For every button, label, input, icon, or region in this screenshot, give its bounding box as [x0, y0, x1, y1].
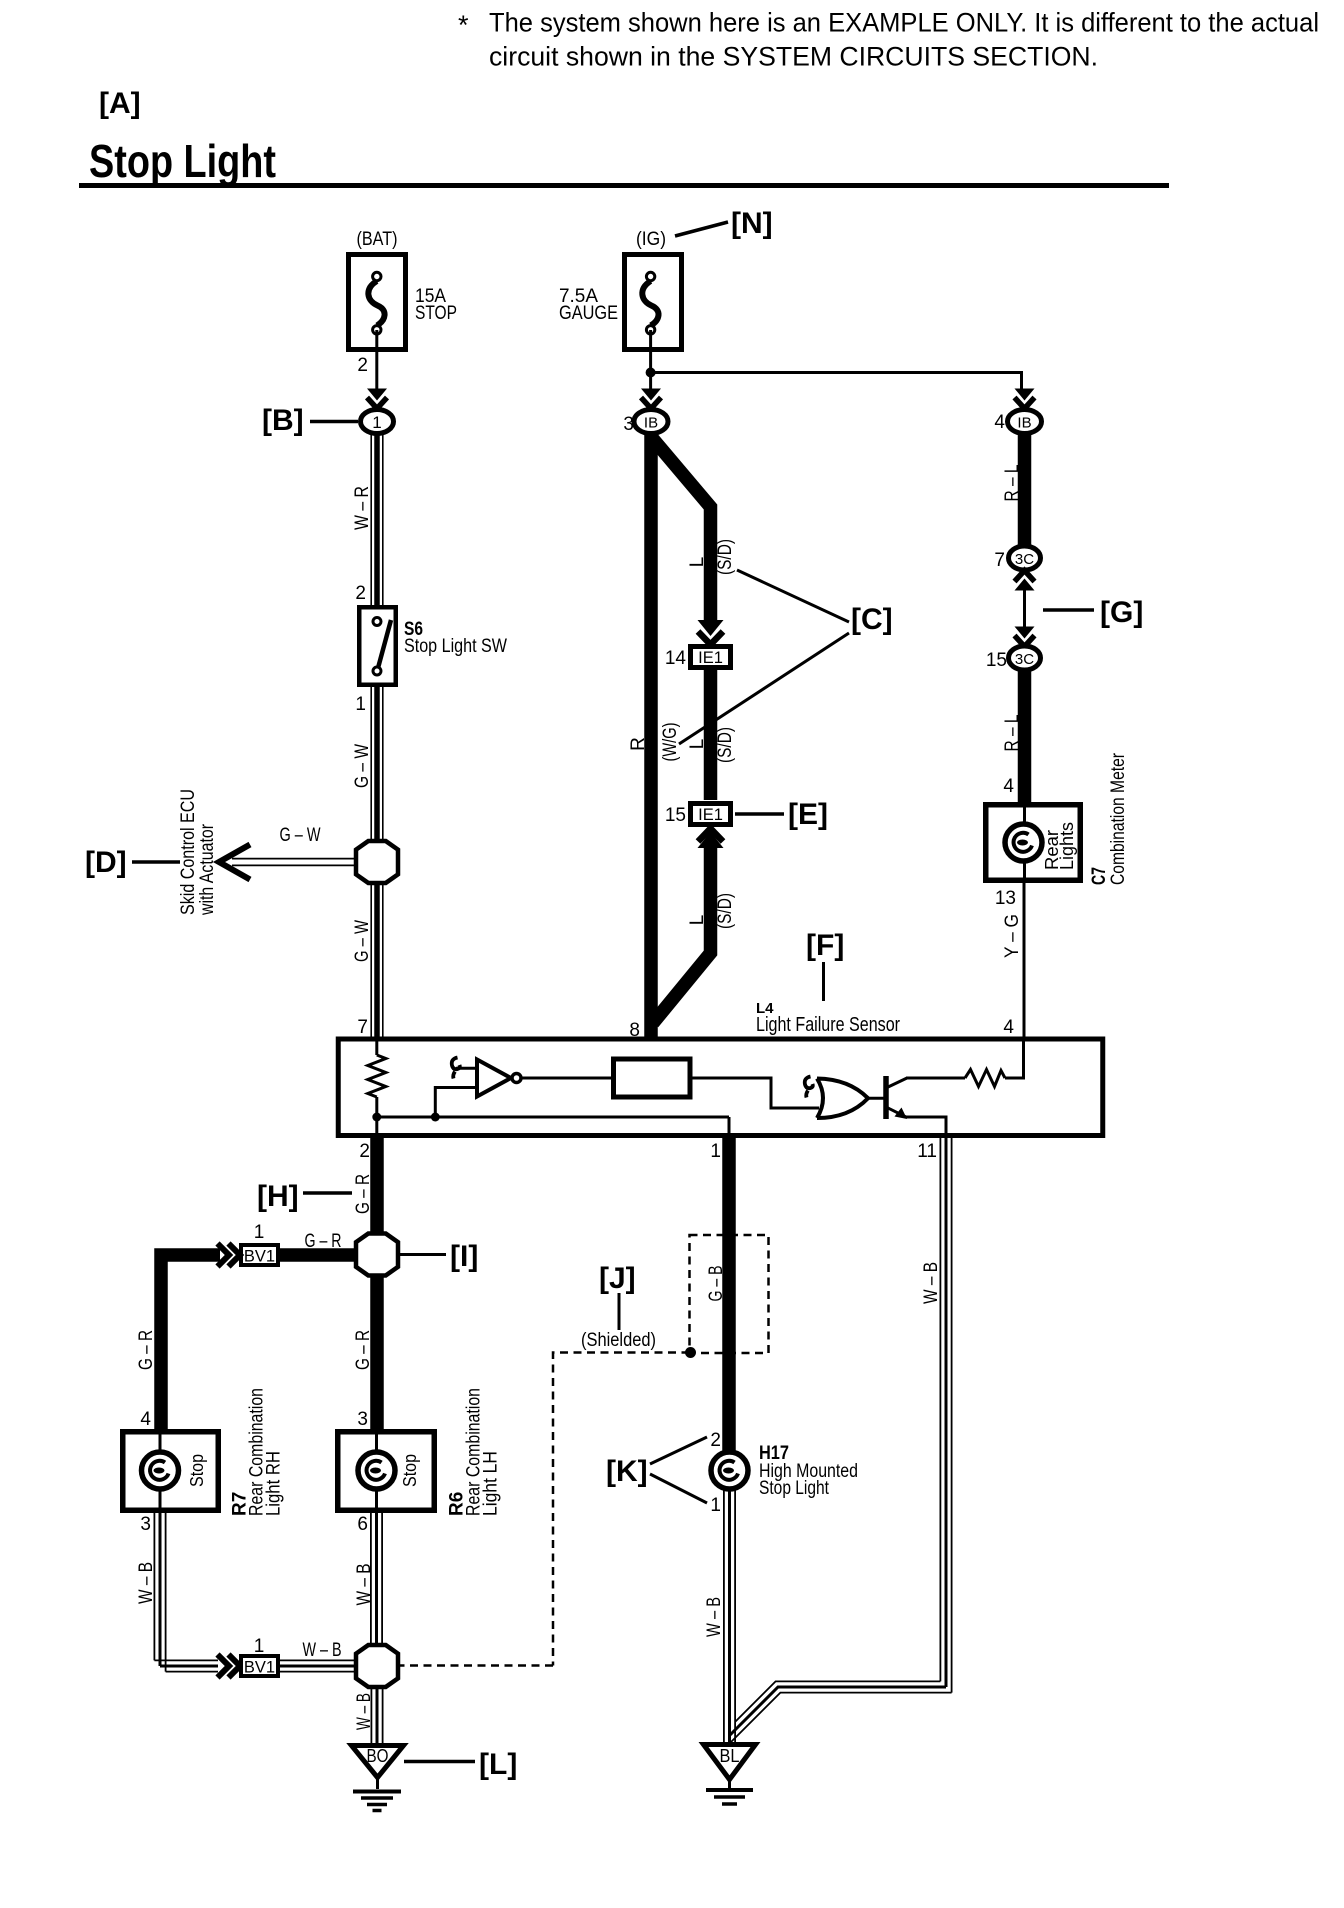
svg-text:[H]: [H]: [257, 1180, 299, 1213]
connector oval 1 (ECU side): [361, 410, 394, 434]
wire W-B R6 to octagon: [371, 1511, 382, 1646]
svg-text:G – W: G – W: [352, 920, 373, 962]
transistor Q1: [886, 1076, 907, 1119]
arrow into connector IB pin 4: [1015, 389, 1035, 409]
leader line to [N]: [675, 222, 728, 236]
arrow into connector IB pin 3: [641, 389, 661, 409]
wire W-B BV1 to octagon: [280, 1660, 356, 1671]
svg-text:IE1: IE1: [698, 649, 723, 667]
svg-text:W – B: W – B: [303, 1640, 342, 1661]
connector oval IB pin 4: [994, 410, 1041, 434]
svg-text:STOP: STOP: [415, 303, 457, 324]
svg-text:L: L: [687, 915, 708, 926]
switch S6 box: [359, 607, 396, 685]
svg-text:(S/D): (S/D): [715, 539, 736, 575]
svg-text:4: 4: [140, 1409, 151, 1430]
svg-text:(S/D): (S/D): [715, 893, 736, 929]
arrow into IE1 pin 14: [698, 620, 724, 645]
OR gate: [817, 1079, 868, 1119]
leader line [L]: [404, 1760, 475, 1764]
leader lines [K]: [650, 1437, 707, 1464]
light failure sensor L4 box: [338, 1039, 1103, 1136]
node shield junction dot: [685, 1347, 696, 1358]
ground BL: [704, 1745, 756, 1805]
connector IE1 pin 14: [665, 647, 731, 670]
svg-text:W – B: W – B: [354, 1564, 375, 1606]
svg-text:[C]: [C]: [851, 603, 893, 636]
label H17 High Mounted Stop Light: [759, 1443, 858, 1499]
svg-text:3: 3: [623, 414, 634, 435]
wire bubble to block: [521, 1077, 613, 1080]
svg-text:[K]: [K]: [606, 1455, 648, 1488]
svg-text:[B]: [B]: [262, 404, 304, 437]
arrow into connector 1: [367, 389, 387, 409]
node junction comparator tap: [431, 1113, 440, 1122]
wire L thick upper branch: [653, 439, 711, 621]
wire G-R octagon to BV1: [280, 1248, 357, 1262]
wire W-B corner to BL: [728, 1681, 952, 1745]
svg-text:with Actuator: with Actuator: [197, 823, 218, 915]
svg-text:Stop: Stop: [400, 1454, 420, 1487]
leader line [J]: [618, 1293, 621, 1330]
wire fuse GAUGE down: [649, 330, 652, 391]
svg-text:Y – G: Y – G: [1002, 914, 1023, 958]
switch S6 contacts: [373, 618, 391, 676]
leader line [B]: [310, 420, 358, 424]
wire internal to pin 1: [728, 1117, 731, 1135]
svg-text:2: 2: [359, 1141, 370, 1162]
svg-text:Lights: Lights: [1057, 822, 1077, 870]
wire W-B H17 to ground BL: [724, 1488, 735, 1745]
wire L thick mid IE1 to IE1: [704, 670, 718, 800]
wire through R7: [159, 1434, 162, 1509]
junction octagon D: [356, 841, 398, 883]
rear combination light R6 box: [338, 1432, 435, 1511]
arrow into 3C pin 15: [1015, 627, 1035, 647]
svg-text:1: 1: [254, 1222, 265, 1243]
fuse 15A STOP box: [349, 255, 406, 350]
svg-text:3C: 3C: [1015, 551, 1034, 568]
svg-text:[F]: [F]: [806, 929, 844, 962]
wire G-R corner to R7: [161, 1255, 220, 1431]
bulb H17 high mounted stop light: [711, 1452, 748, 1489]
connector IE1 pin 15: [665, 804, 731, 827]
wire W-R connector 1 to S6: [371, 434, 383, 606]
svg-text:Stop Light SW: Stop Light SW: [404, 636, 507, 657]
svg-text:11: 11: [917, 1141, 937, 1162]
wire OR to transistor base: [866, 1097, 884, 1100]
resistor R input (pin 7): [368, 1041, 386, 1135]
ground BO: [352, 1746, 404, 1811]
wire G-R thick L4 pin2 to octagon: [370, 1133, 384, 1235]
chevrons into BV1 upper: [218, 1244, 241, 1267]
svg-text:W – B: W – B: [354, 1693, 375, 1730]
svg-text:(BAT): (BAT): [357, 229, 398, 250]
svg-text:15: 15: [986, 650, 1007, 671]
wire W-B from L4 pin 11: [940, 1137, 951, 1693]
svg-text:BL: BL: [720, 1746, 740, 1766]
svg-text:C7: C7: [1089, 867, 1110, 885]
rear combination light R7 box: [123, 1432, 219, 1511]
svg-text:1: 1: [372, 413, 381, 432]
wire R thick IB to L4 pin 8: [644, 434, 658, 1044]
svg-text:(S/D): (S/D): [715, 727, 736, 763]
svg-text:(Shielded): (Shielded): [581, 1330, 656, 1351]
wire internal bus: [377, 1116, 729, 1119]
svg-text:[G]: [G]: [1100, 596, 1143, 629]
svg-text:4: 4: [1003, 1017, 1014, 1038]
svg-text:3: 3: [140, 1514, 151, 1535]
svg-text:BO: BO: [367, 1746, 389, 1766]
svg-text:[E]: [E]: [788, 798, 828, 831]
svg-text:[D]: [D]: [85, 846, 127, 879]
wire W-B corner to BV1 lower: [154, 1660, 218, 1671]
svg-text:L: L: [687, 557, 708, 568]
shield drain dashed wire: [399, 1353, 690, 1666]
wire R stub into L4: [647, 1041, 656, 1058]
connector oval 3C pin 7: [994, 546, 1040, 571]
connector BV1 upper: [241, 1245, 278, 1266]
svg-text:W – B: W – B: [921, 1262, 942, 1304]
junction octagon BO: [356, 1645, 398, 1687]
svg-text:2: 2: [357, 355, 368, 376]
svg-text:W – B: W – B: [136, 1562, 157, 1604]
svg-text:G – W: G – W: [352, 744, 373, 788]
leader line [H]: [303, 1191, 352, 1195]
wire junction to right branch: [651, 373, 1022, 392]
svg-text:4: 4: [1003, 776, 1014, 797]
wire G-R octagon to R6: [370, 1274, 384, 1431]
svg-text:G – R: G – R: [305, 1231, 342, 1252]
wire G-W S6 to junction octagon: [371, 687, 383, 843]
internal block rectangle: [614, 1059, 691, 1097]
svg-text:G – B: G – B: [706, 1266, 727, 1302]
wire W-B R7 down: [154, 1511, 165, 1672]
leader line [F]: [822, 962, 825, 1001]
wire W-B octagon to ground BO: [371, 1686, 382, 1745]
connector BV1 lower: [241, 1656, 278, 1677]
wire block to OR gate: [690, 1078, 819, 1108]
svg-text:R – L: R – L: [1002, 465, 1023, 502]
svg-text:Light LH: Light LH: [481, 1451, 502, 1516]
label R7 Rear Combination Light RH: [230, 1388, 285, 1516]
fuse 7.5A GAUGE symbol: [642, 272, 658, 334]
wire through C7: [1023, 807, 1026, 880]
svg-text:(W/G): (W/G): [660, 723, 681, 762]
svg-text:G – W: G – W: [280, 825, 321, 846]
wire through R6: [375, 1434, 378, 1509]
wire collector to resistor: [906, 1077, 965, 1080]
wire G-W octagon to L4 pin 7: [371, 881, 383, 1039]
junction octagon I: [356, 1234, 398, 1276]
svg-text:6: 6: [357, 1514, 368, 1535]
svg-text:Skid Control ECU: Skid Control ECU: [178, 789, 199, 915]
bulb Stop R7: [142, 1452, 179, 1489]
coil hook comparator input: [452, 1058, 460, 1079]
wire R-L thick IB to 3C: [1018, 434, 1032, 547]
arrow up into 3C pin 7: [1015, 571, 1035, 591]
wire R-L thick 3C to C7: [1018, 670, 1032, 806]
svg-text:2: 2: [355, 583, 366, 604]
svg-text:1: 1: [710, 1495, 721, 1516]
wire tap to comparator: [435, 1088, 477, 1118]
svg-text:Combination Meter: Combination Meter: [1108, 752, 1129, 885]
svg-text:2: 2: [710, 1430, 721, 1451]
connector oval IB pin 3: [623, 410, 668, 436]
leader line [E]: [735, 812, 784, 816]
svg-text:Stop Light: Stop Light: [89, 135, 276, 187]
svg-text:(IG): (IG): [636, 229, 666, 250]
node junction pin7/pin2: [372, 1113, 381, 1122]
svg-text:[N]: [N]: [731, 207, 773, 240]
svg-text:G – R: G – R: [353, 1174, 374, 1214]
svg-text:7: 7: [994, 550, 1005, 571]
svg-text:IB: IB: [644, 415, 658, 432]
wire emitter to pin 11: [906, 1117, 946, 1135]
shielded dashed box: [690, 1235, 769, 1353]
wire thin between 3C connectors: [1023, 586, 1026, 629]
svg-text:14: 14: [665, 648, 687, 669]
svg-text:circuit shown in the SYSTEM CI: circuit shown in the SYSTEM CIRCUITS SEC…: [489, 42, 1098, 72]
svg-text:BV1: BV1: [244, 1659, 275, 1677]
svg-text:1: 1: [254, 1636, 265, 1657]
svg-text:The system shown here is an EX: The system shown here is an EXAMPLE ONLY…: [489, 8, 1319, 38]
fuse 7.5A GAUGE box: [625, 255, 682, 350]
label Rear Lights: [1042, 822, 1077, 870]
svg-text:13: 13: [995, 888, 1016, 909]
svg-text:L: L: [687, 739, 708, 750]
svg-text:[J]: [J]: [599, 1262, 636, 1295]
wire arrow to Skid Control ECU: [219, 845, 356, 880]
svg-text:BV1: BV1: [244, 1248, 275, 1266]
svg-text:3: 3: [357, 1409, 368, 1430]
label Skid Control ECU with Actuator: [178, 789, 218, 916]
svg-text:7: 7: [357, 1017, 368, 1038]
svg-text:15: 15: [665, 805, 686, 826]
svg-text:W – B: W – B: [704, 1597, 725, 1637]
bulb Stop R6: [358, 1452, 395, 1489]
resistor output: [965, 1070, 1005, 1087]
svg-text:[L]: [L]: [479, 1748, 517, 1781]
svg-text:W – R: W – R: [352, 486, 373, 530]
svg-text:IE1: IE1: [698, 806, 723, 824]
svg-text:R – L: R – L: [1002, 715, 1023, 752]
connector oval 3C pin 15: [986, 646, 1041, 671]
junction dot below fuse GAUGE: [646, 368, 656, 378]
chevrons into BV1 lower: [218, 1655, 241, 1678]
svg-text:[I]: [I]: [450, 1240, 478, 1273]
wire Y-G C7 to L4 pin 4: [1023, 883, 1026, 1039]
title rule: [79, 183, 1169, 188]
comparator output bubble: [512, 1074, 521, 1083]
leader line [G]: [1043, 608, 1094, 612]
comparator triangle U1: [477, 1060, 511, 1097]
combination meter C7 box: [986, 805, 1081, 881]
wire resistor to pin 4: [1005, 1041, 1024, 1078]
svg-text:1: 1: [355, 694, 366, 715]
svg-text:*: *: [458, 10, 469, 40]
leader line [D]: [132, 860, 180, 864]
svg-text:IB: IB: [1017, 415, 1031, 432]
svg-text:3C: 3C: [1015, 651, 1034, 668]
wire fuse STOP to connector 1: [375, 330, 378, 391]
arrow up into IE1 pin 15: [698, 829, 724, 849]
leader lines [C]: [737, 570, 849, 622]
bulb Rear Lights: [1005, 824, 1042, 861]
label R6 Rear Combination Light LH: [447, 1388, 502, 1516]
svg-text:1: 1: [710, 1141, 721, 1162]
wire hook to comparator: [456, 1067, 477, 1070]
svg-text:[A]: [A]: [99, 87, 141, 120]
svg-text:Stop: Stop: [187, 1454, 207, 1487]
label C7 Combination Meter: [1089, 752, 1129, 885]
svg-text:GAUGE: GAUGE: [559, 303, 618, 324]
svg-text:Stop Light: Stop Light: [759, 1478, 830, 1499]
svg-text:R: R: [628, 737, 649, 751]
svg-text:G – R: G – R: [136, 1330, 157, 1370]
leader line [I]: [400, 1253, 446, 1256]
coil hook OR gate input: [805, 1077, 813, 1098]
fuse 15A STOP symbol: [368, 272, 384, 334]
svg-text:Light RH: Light RH: [264, 1451, 285, 1516]
wire L thick lower branch: [653, 845, 711, 1023]
svg-text:4: 4: [994, 412, 1005, 433]
wire G-B thick L4 pin1 to H17: [722, 1133, 736, 1455]
svg-text:Light Failure Sensor: Light Failure Sensor: [756, 1014, 900, 1036]
